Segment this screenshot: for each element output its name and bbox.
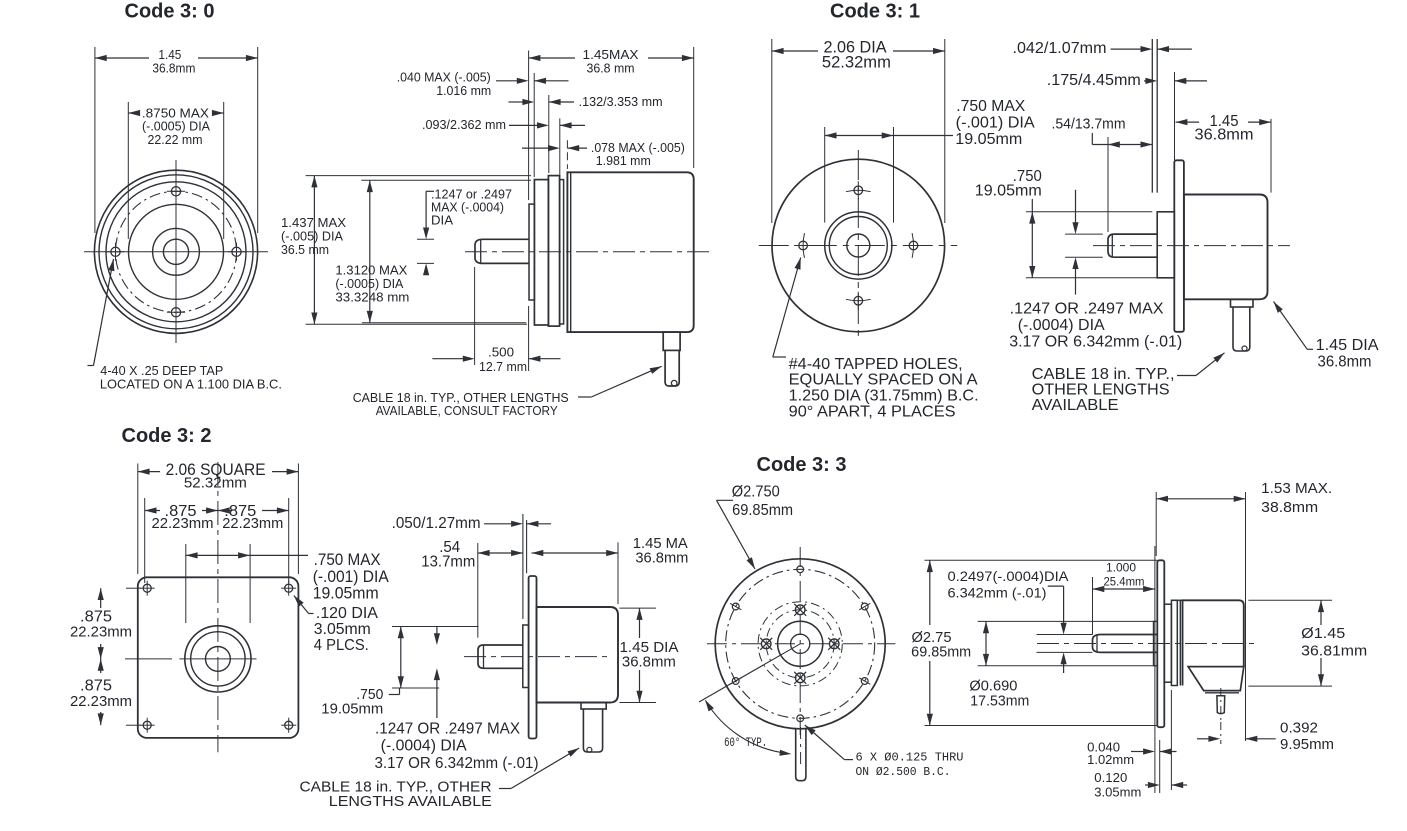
svg-text:LOCATED ON A 1.100 DIA B.C.: LOCATED ON A 1.100 DIA B.C.	[100, 377, 282, 391]
svg-text:3.05mm: 3.05mm	[314, 621, 371, 638]
svg-text:EQUALLY SPACED ON A: EQUALLY SPACED ON A	[789, 372, 978, 389]
svg-text:33.3248 mm: 33.3248 mm	[335, 290, 409, 305]
svg-text:.750 MAX: .750 MAX	[314, 551, 381, 569]
svg-text:60° TYP.: 60° TYP.	[724, 736, 767, 750]
svg-text:9.95mm: 9.95mm	[1280, 736, 1334, 753]
svg-text:3.05mm: 3.05mm	[1094, 785, 1141, 800]
svg-text:36.8mm: 36.8mm	[1195, 127, 1254, 144]
svg-text:1.250 DIA (31.75mm) B.C.: 1.250 DIA (31.75mm) B.C.	[789, 388, 979, 405]
svg-text:1.02mm: 1.02mm	[1087, 752, 1134, 767]
svg-text:.093/2.362 mm: .093/2.362 mm	[422, 117, 506, 132]
svg-text:4-40 X .25 DEEP TAP: 4-40 X .25 DEEP TAP	[100, 364, 223, 378]
svg-text:6 X Ø0.125 THRU: 6 X Ø0.125 THRU	[856, 751, 964, 765]
svg-text:1.000: 1.000	[1106, 561, 1136, 575]
svg-text:0.2497(-.0004)DIA: 0.2497(-.0004)DIA	[948, 568, 1070, 584]
svg-text:.120 DIA: .120 DIA	[316, 605, 378, 622]
svg-text:13.7mm: 13.7mm	[421, 553, 475, 570]
svg-text:AVAILABLE: AVAILABLE	[1032, 397, 1119, 414]
svg-text:.750 MAX: .750 MAX	[956, 98, 1025, 115]
svg-text:Code 3: 2: Code 3: 2	[122, 425, 212, 447]
svg-text:1.016 mm: 1.016 mm	[436, 83, 491, 98]
svg-text:25.4mm: 25.4mm	[1104, 575, 1145, 589]
svg-text:4 PLCS.: 4 PLCS.	[314, 637, 369, 654]
svg-text:52.32mm: 52.32mm	[184, 475, 247, 492]
svg-text:Ø0.690: Ø0.690	[969, 679, 1017, 695]
svg-text:36.8mm: 36.8mm	[1318, 353, 1372, 370]
svg-text:(-.001) DIA: (-.001) DIA	[313, 568, 389, 586]
svg-text:69.85mm: 69.85mm	[911, 645, 971, 661]
svg-text:22.23mm: 22.23mm	[152, 515, 214, 532]
svg-text:.050/1.27mm: .050/1.27mm	[392, 515, 481, 532]
svg-text:(-.0004) DIA: (-.0004) DIA	[381, 738, 468, 755]
svg-text:19.05mm: 19.05mm	[313, 585, 379, 603]
svg-text:0.120: 0.120	[1094, 770, 1127, 785]
svg-text:36.8mm: 36.8mm	[152, 61, 195, 76]
svg-text:36.81mm: 36.81mm	[1301, 642, 1367, 659]
svg-text:0.392: 0.392	[1280, 720, 1318, 737]
svg-text:Ø2.750: Ø2.750	[732, 483, 780, 500]
svg-text:#4-40 TAPPED HOLES,: #4-40 TAPPED HOLES,	[789, 356, 963, 373]
svg-text:1.981 mm: 1.981 mm	[596, 153, 651, 168]
svg-text:.042/1.07mm: .042/1.07mm	[1013, 40, 1107, 57]
svg-text:17.53mm: 17.53mm	[970, 694, 1029, 710]
svg-text:.500: .500	[488, 345, 514, 360]
svg-text:36.8mm: 36.8mm	[635, 549, 688, 566]
svg-text:.54/13.7mm: .54/13.7mm	[1052, 116, 1126, 133]
svg-text:12.7 mm: 12.7 mm	[479, 359, 527, 374]
svg-text:.1247 OR .2497 MAX: .1247 OR .2497 MAX	[1010, 301, 1164, 318]
svg-text:19.05mm: 19.05mm	[975, 182, 1042, 199]
svg-text:LENGTHS AVAILABLE: LENGTHS AVAILABLE	[329, 794, 492, 810]
svg-text:.132/3.353 mm: .132/3.353 mm	[579, 94, 663, 109]
svg-text:.1247 OR .2497 MAX: .1247 OR .2497 MAX	[375, 720, 520, 737]
svg-text:38.8mm: 38.8mm	[1261, 499, 1318, 516]
svg-text:Ø1.45: Ø1.45	[1301, 625, 1345, 642]
svg-text:90° APART, 4 PLACES: 90° APART, 4 PLACES	[789, 403, 956, 420]
svg-text:1.53 MAX.: 1.53 MAX.	[1261, 480, 1332, 497]
svg-text:Code 3: 1: Code 3: 1	[830, 1, 920, 23]
svg-text:22.23mm: 22.23mm	[70, 624, 132, 641]
svg-text:Code 3: 3: Code 3: 3	[757, 454, 847, 476]
svg-text:Code 3: 0: Code 3: 0	[125, 1, 215, 23]
svg-text:52.32mm: 52.32mm	[822, 54, 891, 72]
svg-text:DIA: DIA	[431, 213, 453, 228]
svg-text:22.22 mm: 22.22 mm	[148, 132, 203, 147]
svg-text:19.05mm: 19.05mm	[321, 701, 383, 717]
svg-text:6.342mm (-.01): 6.342mm (-.01)	[948, 584, 1047, 600]
svg-text:36.8 mm: 36.8 mm	[587, 61, 635, 76]
svg-text:(-.001) DIA: (-.001) DIA	[956, 115, 1035, 132]
svg-text:1.45 DIA: 1.45 DIA	[1316, 337, 1380, 354]
svg-text:22.23mm: 22.23mm	[70, 693, 132, 710]
svg-text:36.8mm: 36.8mm	[622, 653, 676, 670]
svg-text:AVAILABLE, CONSULT FACTORY: AVAILABLE, CONSULT FACTORY	[376, 403, 558, 418]
svg-text:19.05mm: 19.05mm	[955, 131, 1022, 148]
svg-text:3.17 OR 6.342mm (-.01): 3.17 OR 6.342mm (-.01)	[1009, 334, 1182, 351]
svg-text:36.5 mm: 36.5 mm	[281, 242, 329, 257]
svg-text:22.23mm: 22.23mm	[222, 515, 283, 532]
svg-text:69.85mm: 69.85mm	[732, 502, 793, 519]
svg-text:3.17 OR 6.342mm (-.01): 3.17 OR 6.342mm (-.01)	[375, 755, 539, 772]
svg-text:.175/4.45mm: .175/4.45mm	[1047, 72, 1141, 89]
svg-text:ON Ø2.500 B.C.: ON Ø2.500 B.C.	[856, 765, 951, 779]
svg-text:(-.0004) DIA: (-.0004) DIA	[1018, 317, 1105, 334]
